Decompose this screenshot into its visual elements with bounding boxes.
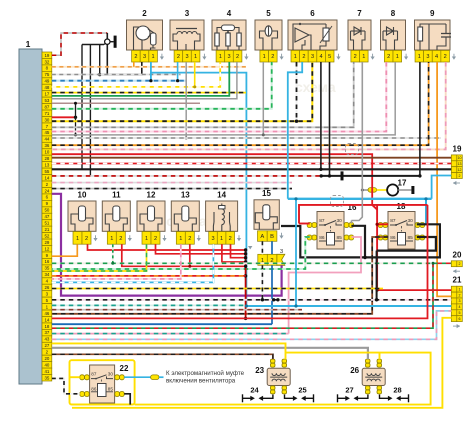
wire pin44 pink/white band — [52, 62, 387, 132]
svg-text:44: 44 — [44, 137, 49, 142]
svg-text:16: 16 — [44, 259, 49, 264]
svg-text:35: 35 — [44, 266, 49, 271]
svg-text:2: 2 — [85, 236, 88, 242]
wire yellow stub to relay22 pin87 — [70, 376, 80, 378]
wire red trunk vertical — [245, 250, 247, 318]
svg-text:11: 11 — [112, 191, 121, 200]
wire injector12 pin2 red row — [156, 244, 246, 254]
connector X21 — [451, 276, 462, 329]
svg-text:43: 43 — [44, 337, 49, 342]
junction bw band c — [276, 298, 279, 301]
connector X20 — [451, 250, 462, 273]
svg-text:40: 40 — [44, 362, 49, 367]
wire component2 pin3 black — [100, 62, 142, 75]
svg-text:36: 36 — [44, 143, 49, 148]
junction lightblue trunk — [294, 197, 297, 200]
svg-text:30: 30 — [44, 117, 49, 122]
wire white/green band to X20 — [52, 262, 431, 264]
wire pin7 yellow/black band 2 — [52, 62, 313, 121]
svg-text:3: 3 — [185, 54, 188, 60]
svg-text:86: 86 — [91, 387, 97, 392]
wire component6 pin1 black/white drop — [296, 62, 298, 121]
svg-text:12: 12 — [147, 191, 156, 200]
svg-text:3: 3 — [426, 54, 429, 60]
wire black main drop — [106, 33, 108, 75]
wire gray band to coil26 — [52, 348, 368, 359]
junction tie b — [74, 133, 77, 136]
wire pin75 gray/white band — [52, 74, 181, 76]
wire red to connector21 pin1 — [377, 289, 451, 291]
svg-text:25: 25 — [298, 386, 306, 395]
junction red row 13 — [188, 265, 191, 268]
svg-text:87: 87 — [44, 104, 49, 109]
svg-text:18: 18 — [397, 202, 406, 211]
svg-text:87: 87 — [390, 218, 396, 224]
wire valve14 pin2 red row — [231, 244, 246, 258]
junction lightblue band — [294, 304, 297, 307]
svg-text:2: 2 — [119, 236, 122, 242]
relay K22 (fan clutch relay) — [80, 364, 129, 403]
wire lightblue down to relay18 pin30 — [417, 199, 426, 225]
junction node drop — [98, 73, 101, 76]
wire black tie vertical — [75, 103, 77, 135]
svg-text:19: 19 — [453, 144, 462, 153]
wire injector13 pin1 pink/white — [52, 244, 181, 279]
wire black relay18 pin85 — [377, 237, 436, 251]
svg-text:2: 2 — [302, 54, 305, 60]
wire pin-row9 gray/red band — [52, 102, 200, 104]
component B6 (oxygen sensor) — [288, 9, 341, 62]
svg-text:26: 26 — [44, 285, 49, 290]
wire pin71 green/white band — [52, 62, 272, 109]
wire component3 pin1 yellow drop — [194, 62, 196, 87]
wire yellow branch coil26 — [379, 353, 381, 360]
svg-text:2: 2 — [354, 54, 357, 60]
svg-text:1: 1 — [263, 54, 266, 60]
wire gray comp7pin1 to relay16 pin30 — [351, 62, 362, 221]
wire green/white relay16 pin86 — [52, 237, 310, 269]
wire black node tie bar — [82, 44, 104, 46]
junction lightblue comp3 pin2 — [176, 79, 179, 82]
wire brown/black relay18 pin86 — [52, 237, 388, 314]
svg-text:48: 48 — [44, 85, 49, 90]
svg-text:87: 87 — [91, 371, 97, 376]
svg-text:51: 51 — [44, 221, 49, 226]
wire lightblue branch trunk to band — [295, 199, 297, 306]
svg-text:2: 2 — [236, 54, 239, 60]
wire purple net — [52, 194, 282, 296]
wire yellow from 21 pin6 — [72, 318, 451, 408]
wire pink/black band to 21 pin3 — [52, 299, 452, 301]
svg-text:1: 1 — [219, 54, 222, 60]
svg-text:4: 4 — [435, 54, 438, 60]
wire yellow/black low band — [52, 288, 383, 290]
svg-text:4: 4 — [320, 54, 323, 60]
svg-text:18: 18 — [44, 324, 49, 329]
wire lightblue trunk to relay18 — [288, 198, 432, 200]
svg-text:32: 32 — [44, 59, 49, 64]
wire component6 pin2 lightblue — [288, 62, 302, 199]
junction ground lead — [320, 174, 323, 177]
junction red trunk c — [244, 256, 247, 259]
option frame around relay 22 (yellow box) — [70, 360, 135, 404]
wire relay22 pin30 lightblue — [124, 376, 150, 378]
svg-text:49: 49 — [44, 79, 49, 84]
svg-text:1: 1 — [110, 236, 113, 242]
svg-text:2: 2 — [387, 54, 390, 60]
connector X15 below component 15 — [248, 246, 285, 265]
junction bw band a — [261, 298, 264, 301]
svg-text:55: 55 — [44, 169, 49, 174]
wire black relay16 pin30 link — [351, 226, 365, 258]
svg-text:включения вентилятора: включения вентилятора — [166, 378, 236, 385]
relay K18 (main relay) — [378, 202, 424, 249]
wire pin33 black/white to relay22 pin86 — [52, 378, 80, 393]
watermark — [150, 79, 336, 229]
wire red low band — [52, 205, 428, 319]
svg-text:24: 24 — [250, 386, 259, 395]
svg-text:20: 20 — [44, 356, 49, 361]
svg-text:46: 46 — [44, 311, 49, 316]
component B5 (knock sensor) — [255, 9, 284, 62]
svg-text:19: 19 — [44, 53, 49, 58]
wire comp15 pinA black/white — [261, 241, 263, 254]
svg-text:1: 1 — [76, 236, 79, 242]
svg-text:2: 2 — [154, 236, 157, 242]
wire injector11 pin2 red row — [122, 244, 246, 266]
wire pin24 black/red band — [52, 175, 321, 177]
junction red trunk f — [244, 274, 247, 277]
svg-text:1: 1 — [362, 54, 365, 60]
wire pin6 gray/pink band — [52, 182, 292, 184]
junction red trunk g — [244, 317, 247, 320]
junction black rail — [363, 256, 367, 260]
connector X19 — [451, 144, 462, 185]
svg-text:2: 2 — [177, 54, 180, 60]
ignition coil 26 — [350, 359, 385, 394]
component Y13 (injector 4) — [171, 191, 201, 245]
svg-text:8: 8 — [391, 9, 396, 18]
svg-text:30: 30 — [108, 371, 114, 376]
svg-text:27: 27 — [345, 386, 353, 395]
svg-text:10: 10 — [458, 156, 462, 160]
wire pin55 brown band to X19 — [52, 157, 452, 159]
svg-text:1: 1 — [152, 54, 155, 60]
svg-text:21: 21 — [453, 276, 462, 285]
junction red trunk e — [244, 265, 247, 268]
wire component9 pin4 orange to 21 pin2 — [437, 62, 451, 296]
component U2 (ignition module) — [127, 9, 165, 62]
junction bw band d — [375, 298, 378, 301]
wire teal/green dashed low band — [52, 304, 244, 306]
svg-text:75: 75 — [44, 72, 49, 77]
svg-text:6: 6 — [310, 9, 315, 18]
relay K16 (fuel pump relay) — [307, 203, 357, 249]
svg-text:9: 9 — [430, 9, 435, 18]
svg-text:1: 1 — [26, 39, 31, 49]
svg-text:2: 2 — [459, 174, 461, 178]
wire fan clutch lead — [159, 376, 164, 378]
svg-text:3: 3 — [459, 299, 461, 303]
ground terminal bar — [341, 171, 344, 180]
svg-text:53: 53 — [44, 98, 49, 103]
component B7 (speed sensor) — [348, 9, 375, 62]
wire red/orange band — [52, 275, 246, 277]
wire green/red band to X20 — [52, 263, 452, 328]
junction red trunk b — [244, 252, 247, 255]
junction comp6 pin5 — [328, 174, 331, 177]
wire component2 pin2 drop — [133, 62, 135, 67]
junction red 21pin1 — [376, 289, 379, 292]
svg-text:71: 71 — [44, 111, 49, 116]
wire red rail relay16/18 — [299, 205, 428, 224]
svg-text:1: 1 — [145, 236, 148, 242]
wire valve14 pin3 lightblue/white — [52, 244, 214, 282]
junction comp6 pin1 — [295, 120, 298, 123]
junction green X20 — [432, 262, 435, 265]
component B3 (crankshaft sensor) — [170, 9, 207, 62]
wire injector12 pin1 yellow/green — [52, 244, 147, 271]
junction gray comp3 pin3 — [185, 137, 188, 140]
svg-text:15: 15 — [262, 189, 271, 198]
wire pin49 blue dashed band — [52, 80, 187, 82]
wire injector11 pin1 green drop — [112, 244, 114, 263]
wire gray/maroon band — [52, 309, 302, 311]
svg-text:47: 47 — [44, 214, 49, 219]
wire yellow supply wire to coil23 — [52, 343, 286, 359]
svg-text:2: 2 — [459, 293, 461, 297]
text: to electromagnetic fan clutch — [166, 370, 245, 385]
wire valve14 pin1 red row — [222, 244, 246, 262]
svg-text:50: 50 — [44, 208, 49, 213]
wire component6 pin4 black drop — [320, 62, 322, 169]
svg-text:28: 28 — [44, 156, 49, 161]
wire component5 pin1 gray drop — [262, 62, 264, 135]
svg-text:12: 12 — [458, 168, 462, 172]
wire brown/black band to coil23 — [52, 354, 273, 359]
svg-text:3: 3 — [211, 236, 214, 242]
wire pin36 gray band — [52, 62, 395, 135]
wire pin30 red stub — [52, 116, 76, 118]
wire black drop from relay rail — [376, 251, 378, 300]
wire pin14 red/white band to X19 — [52, 163, 452, 165]
svg-text:1: 1 — [294, 54, 297, 60]
svg-text:5: 5 — [459, 311, 461, 315]
junction tie a — [74, 102, 77, 105]
svg-text:34: 34 — [44, 272, 49, 277]
svg-text:85: 85 — [108, 387, 114, 392]
junction bw band b — [272, 298, 275, 301]
wire yellow branch to coil26 and loop — [135, 353, 431, 405]
wire component3 pin2 lightblue drop — [177, 62, 179, 81]
wire red into relay16 pin87 — [299, 223, 310, 225]
component 15 (throttle sensor) — [254, 189, 284, 241]
svg-text:17: 17 — [44, 92, 49, 97]
junction black comp6 pin4 — [319, 168, 322, 171]
wire pink/teal dashed band from relay16 pin85 — [52, 333, 289, 335]
wire lightblue branch to X19 — [432, 176, 452, 199]
svg-text:23: 23 — [255, 366, 264, 375]
svg-text:3: 3 — [143, 54, 146, 60]
wire component2 pin1 lightblue — [150, 62, 152, 81]
ECU connector 1 pin strip — [42, 52, 52, 381]
svg-text:2: 2 — [444, 54, 447, 60]
ignition coil 23 — [255, 359, 290, 394]
junction black comp9 pin1 — [418, 174, 421, 177]
svg-text:7: 7 — [357, 9, 362, 18]
svg-text:1: 1 — [194, 54, 197, 60]
wire pin87 gray band — [52, 62, 237, 99]
svg-text:20: 20 — [453, 250, 462, 259]
svg-text:21: 21 — [44, 227, 49, 232]
wire black vertical group b — [89, 45, 91, 177]
svg-text:27: 27 — [44, 343, 49, 348]
component Y12 (injector 3) — [137, 191, 167, 245]
svg-text:37: 37 — [44, 330, 49, 335]
junction red stub — [74, 116, 77, 119]
svg-text:5: 5 — [266, 9, 271, 18]
wire lightblue band upper — [151, 73, 247, 307]
svg-text:1: 1 — [396, 54, 399, 60]
wire blue band from X15 pin2 — [52, 323, 272, 325]
svg-text:86: 86 — [319, 235, 325, 241]
junction yellow comp3pin1 — [193, 85, 196, 88]
svg-text:86: 86 — [390, 235, 396, 241]
item 17 (octane plug) — [361, 179, 415, 196]
svg-text:14: 14 — [217, 191, 226, 200]
svg-text:3: 3 — [311, 54, 314, 60]
svg-text:14: 14 — [44, 175, 49, 180]
component B8 (sensor) — [381, 9, 409, 62]
svg-text:10: 10 — [78, 191, 87, 200]
svg-text:17: 17 — [398, 179, 407, 188]
svg-text:1: 1 — [179, 236, 182, 242]
wire injector10 pin2 red row — [88, 244, 246, 250]
wire X15 pin2 blue drop — [271, 265, 273, 324]
junction red trunk d — [244, 260, 247, 263]
svg-text:1: 1 — [418, 54, 421, 60]
svg-text:28: 28 — [393, 386, 401, 395]
junction lightblue 21pin4 — [245, 304, 248, 307]
wire pin45 gray/white band — [52, 62, 354, 127]
wire lightblue/pink band to 21 pin5 — [52, 311, 452, 339]
svg-text:10: 10 — [44, 150, 49, 155]
svg-text:2: 2 — [188, 236, 191, 242]
component Y14 (idle air valve) — [206, 191, 242, 245]
wire red drop to 21 pin1 — [376, 205, 378, 290]
wire black rail relays — [281, 224, 440, 257]
wire node stub to terminal — [110, 41, 114, 43]
wire comp15 pinB blue — [271, 241, 273, 254]
wire component3 pin3 gray drop — [185, 62, 187, 138]
svg-text:3: 3 — [185, 9, 190, 18]
wire component6 pin5 black drop — [329, 62, 331, 176]
svg-text:2: 2 — [229, 236, 232, 242]
svg-text:24: 24 — [44, 188, 49, 193]
wire X15 pin1 black/white drop — [261, 265, 263, 300]
terminal bar at node — [114, 36, 117, 48]
svg-text:A: A — [260, 234, 264, 240]
wire red into relay18 pin87 — [377, 223, 388, 225]
svg-text:1: 1 — [459, 287, 461, 291]
spark plugs 24/25 — [243, 386, 314, 403]
component Y10 (injector 1) — [68, 191, 98, 245]
wire pin48 yellow/white band — [52, 62, 220, 87]
svg-text:6: 6 — [459, 317, 461, 321]
svg-text:13: 13 — [458, 162, 462, 166]
dashed variant annotation box b — [331, 196, 344, 207]
wire component9 pin2 pink band — [52, 62, 446, 149]
svg-text:К электромагнитной муфте: К электромагнитной муфте — [166, 370, 245, 377]
wire pin8 orange/white band — [52, 66, 246, 68]
wire pin9 gray/black band — [52, 188, 292, 190]
svg-text:45: 45 — [44, 130, 49, 135]
svg-text:3: 3 — [227, 54, 230, 60]
svg-text:12: 12 — [44, 246, 49, 251]
junction lightblue relay18 — [424, 197, 427, 200]
junction lightblue pin49 — [149, 79, 152, 82]
wire node to circle — [104, 43, 106, 45]
svg-text:13: 13 — [181, 191, 190, 200]
component Y11 (injector 2) — [102, 191, 132, 245]
wire lightblue band to 21 pin4 — [246, 305, 451, 307]
svg-text:4: 4 — [459, 305, 461, 309]
svg-text:22: 22 — [120, 364, 129, 373]
junction comp5 pin1 — [262, 133, 265, 136]
svg-text:52: 52 — [44, 233, 49, 238]
svg-text:2: 2 — [271, 54, 274, 60]
svg-text:85: 85 — [336, 235, 342, 241]
ECU connector 1 body — [19, 49, 42, 384]
dashed variant annotation box a — [346, 144, 359, 155]
svg-text:30: 30 — [336, 218, 342, 224]
wire red jog — [372, 205, 377, 210]
svg-text:85: 85 — [407, 235, 413, 241]
wire black vertical group a — [81, 45, 83, 170]
svg-text:B: B — [270, 234, 274, 240]
junction red relay18 87 — [376, 223, 379, 226]
wire ground lead black — [321, 175, 420, 177]
label 1 (ECU connector) — [26, 39, 31, 49]
wire pin17 yellow/black band — [52, 92, 246, 94]
wire pink relay16 pin85 — [289, 237, 361, 334]
component R4 (CO potentiometer) — [212, 9, 249, 62]
spark plugs 27/28 — [338, 386, 409, 403]
svg-text:2: 2 — [142, 9, 147, 18]
svg-text:87: 87 — [319, 218, 325, 224]
wire pin2 black band to X19 — [52, 168, 452, 170]
svg-text:30: 30 — [407, 218, 413, 224]
wire component9 pin1 black drop — [419, 62, 421, 176]
wire pin13 red band — [52, 154, 372, 205]
wire pin10 gray/white band — [52, 137, 441, 139]
wire pin53 green band — [52, 62, 230, 96]
wire black vertical group c — [99, 45, 101, 75]
svg-text:13: 13 — [44, 162, 49, 167]
svg-text:4: 4 — [227, 9, 232, 18]
bullet connector on fan clutch wire — [151, 375, 159, 380]
svg-text:35: 35 — [44, 375, 49, 380]
svg-text:1: 1 — [220, 236, 223, 242]
svg-text:41: 41 — [44, 369, 49, 374]
node circle (joint connector) — [105, 39, 110, 44]
svg-text:26: 26 — [350, 366, 359, 375]
svg-text:2: 2 — [134, 54, 137, 60]
svg-text:29: 29 — [44, 240, 49, 245]
svg-text:5: 5 — [328, 54, 331, 60]
svg-text:2: 2 — [459, 262, 461, 266]
junction green 11pin1 — [111, 262, 114, 265]
